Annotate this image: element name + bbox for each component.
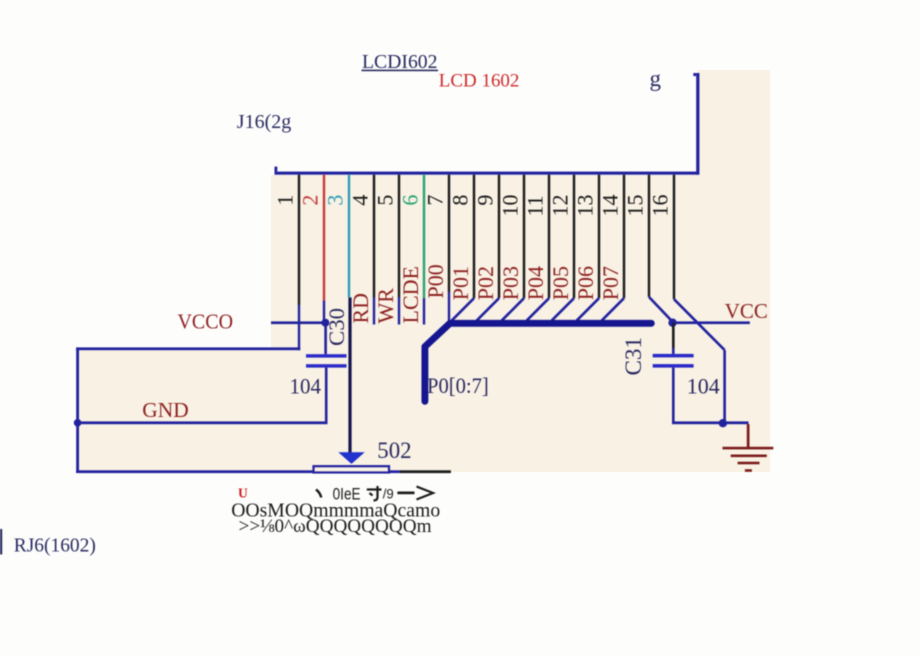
- pin 7 wire (black part): [448, 175, 450, 292]
- svg-text:P02: P02: [473, 266, 498, 300]
- svg-text:7: 7: [423, 195, 448, 206]
- pin 6 wire (blue stub): [423, 298, 425, 325]
- svg-text:RJ6(1602): RJ6(1602): [14, 535, 96, 557]
- svg-text:1: 1: [273, 195, 298, 206]
- C30 top lead: [324, 323, 327, 355]
- pin 12 wire (black part): [573, 175, 575, 299]
- svg-text:P06: P06: [573, 266, 598, 300]
- wire GND horizontal: [76, 421, 327, 424]
- C31 bottom lead: [672, 368, 675, 422]
- wire right vertical: [696, 73, 699, 175]
- svg-text:U: U: [238, 486, 248, 501]
- capacitor C30 plate 1: [306, 354, 347, 357]
- junction dot pin16/ground wire: [719, 419, 727, 427]
- wire pot right terminal (blue): [389, 470, 400, 473]
- ground bar 2: [731, 455, 767, 458]
- pin 5 wire (black part): [398, 175, 400, 298]
- wire VCC horizontal: [672, 321, 749, 324]
- svg-text:2: 2: [298, 195, 323, 206]
- C30 bottom lead: [325, 368, 328, 422]
- pin 16 wire (black part): [673, 175, 675, 300]
- scan artifact dash: [397, 492, 414, 495]
- svg-text:WR: WR: [373, 288, 398, 324]
- svg-text:3: 3: [323, 195, 348, 206]
- bus P0[0:7] thick wire: [425, 323, 651, 401]
- svg-text:LCDE: LCDE: [398, 266, 423, 323]
- svg-text:P07: P07: [598, 266, 623, 300]
- wire pin1 to left vertical: [76, 347, 300, 350]
- scan artifact glyph cun: [367, 486, 382, 501]
- wire pot right terminal (black): [400, 470, 451, 473]
- svg-text:LCD 1602: LCD 1602: [439, 70, 520, 91]
- svg-text:P05: P05: [548, 266, 573, 300]
- potentiometer wiper arrow: [338, 452, 364, 464]
- wire left vertical: [76, 347, 79, 473]
- pin 12 diagonal wire to bus: [552, 298, 574, 320]
- svg-text:C31: C31: [621, 337, 646, 376]
- junction dot GND/left vertical: [74, 419, 82, 427]
- scan artifact comma mark: [316, 490, 321, 498]
- svg-text:4: 4: [348, 195, 373, 206]
- pin 16 vertical wire down: [723, 350, 726, 423]
- pin 2 wire (blue part): [323, 301, 325, 323]
- svg-text:15: 15: [623, 195, 648, 217]
- svg-text:P00: P00: [423, 264, 448, 298]
- svg-text:P01: P01: [448, 266, 473, 300]
- pin 14 diagonal wire to bus: [602, 298, 624, 320]
- pin 3 wiper wire to pot: [348, 297, 351, 452]
- ground bar 3: [738, 462, 760, 465]
- ground bar 1: [723, 447, 774, 450]
- wire right vertical top tick: [693, 73, 696, 76]
- clipped glyph at left edge: [0, 529, 2, 555]
- svg-text:LCDI602: LCDI602: [362, 51, 438, 73]
- svg-text:P0[0:7]: P0[0:7]: [427, 373, 489, 398]
- svg-text:C30: C30: [324, 308, 349, 346]
- potentiometer RJ6 body: [314, 466, 390, 472]
- svg-text:J16(2g: J16(2g: [237, 111, 291, 133]
- wire C31 bottom to ground stem: [672, 421, 749, 424]
- pin 1 wire (black part): [298, 175, 300, 305]
- svg-text:10: 10: [498, 195, 523, 217]
- ground stem: [747, 424, 750, 447]
- capacitor C31 plate 1: [653, 354, 694, 358]
- svg-text:VCCO: VCCO: [178, 310, 234, 334]
- svg-text:11: 11: [523, 195, 548, 216]
- svg-text:14: 14: [598, 195, 623, 217]
- pin 4 wire (blue stub): [373, 298, 375, 325]
- svg-text:GND: GND: [142, 398, 189, 422]
- svg-text:502: 502: [377, 438, 411, 463]
- svg-text:104: 104: [290, 373, 322, 398]
- svg-text:9: 9: [473, 195, 498, 206]
- pin 13 diagonal wire to bus: [577, 298, 599, 320]
- pin 11 wire (black part): [548, 175, 550, 299]
- pin 15 wire (black part): [648, 175, 650, 297]
- ground bar 4: [745, 469, 752, 472]
- pin 14 wire (black part): [623, 175, 625, 299]
- pin 5 wire (blue stub): [398, 298, 400, 325]
- underline of LCDI602: [362, 70, 439, 72]
- pin 10 diagonal wire to bus: [502, 298, 524, 320]
- svg-text:12: 12: [548, 195, 573, 217]
- wire bottom horizontal: [76, 470, 313, 473]
- capacitor C31 plate 2: [653, 364, 694, 368]
- pin 7 wire (blue part to bus): [448, 292, 450, 321]
- svg-text:5: 5: [373, 195, 398, 206]
- pin 13 wire (black part): [598, 175, 600, 299]
- pin 2 wire (red part): [323, 175, 325, 301]
- pin 10 wire (black part): [523, 175, 525, 299]
- svg-text:13: 13: [573, 195, 598, 217]
- pin 15 diagonal wire to VCC node: [649, 297, 673, 322]
- pin 9 diagonal wire to bus: [477, 298, 499, 320]
- svg-text:P03: P03: [498, 266, 523, 300]
- scan artifact gt mark: [417, 487, 434, 500]
- svg-text:>>⅛0^ωQQQQQQQQm: >>⅛0^ωQQQQQQQQm: [239, 516, 432, 537]
- pin 8 diagonal wire to bus: [452, 298, 474, 320]
- wire bar left tick: [275, 167, 278, 172]
- svg-text:8: 8: [448, 195, 473, 206]
- pin 16 diagonal wire: [674, 299, 725, 350]
- wire VCCO horizontal: [271, 321, 327, 324]
- C31 top lead (blue): [672, 348, 675, 354]
- svg-text:P04: P04: [523, 266, 548, 300]
- junction dot VCC/C31: [668, 319, 676, 327]
- capacitor C30 plate 2: [306, 364, 347, 367]
- pin 6 wire (green part): [423, 175, 425, 298]
- wire connector top bar: [275, 172, 699, 175]
- svg-text:g: g: [650, 66, 662, 91]
- pin 11 diagonal wire to bus: [527, 298, 549, 320]
- pin 9 wire (black part): [498, 175, 500, 299]
- svg-text:VCC: VCC: [725, 299, 768, 323]
- svg-text:16: 16: [648, 195, 673, 217]
- svg-text:6: 6: [398, 195, 423, 206]
- C31 top lead (black): [672, 323, 675, 348]
- pin 8 wire (black part): [473, 175, 475, 299]
- pin 1 wire (blue part): [298, 305, 300, 350]
- pin 3 wire (cyan part): [348, 175, 350, 298]
- svg-text:104: 104: [687, 374, 720, 399]
- svg-text:RD: RD: [348, 293, 373, 324]
- junction dot at pin2/C30: [321, 319, 329, 327]
- pin 4 wire (black part): [373, 175, 375, 298]
